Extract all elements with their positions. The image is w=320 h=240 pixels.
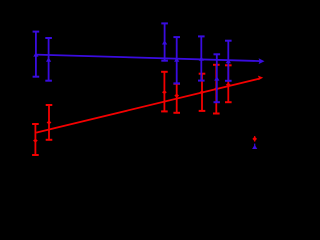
blue marker M7 [226, 59, 231, 64]
chart: scatter with error bars and trend arrows on black background [0, 0, 293, 184]
legend red stem [254, 136, 256, 142]
red error bar R7 [225, 65, 232, 102]
blue error bar B7 [225, 41, 232, 81]
legend red diamond [252, 137, 257, 142]
red error bar R2 [46, 105, 53, 140]
red error bar R3 [161, 72, 168, 112]
blue error bar B2 [45, 38, 52, 81]
red marker D6 [214, 87, 219, 91]
blue marker M5 [199, 56, 204, 61]
red trend line [36, 79, 259, 133]
red marker D4 [174, 94, 179, 98]
red error bar R6 [213, 65, 220, 114]
blue marker M6 [214, 76, 219, 81]
red error bar R1 [32, 124, 39, 155]
legend blue stem [254, 144, 256, 146]
blue error bar B1 [33, 32, 40, 77]
red arrowhead [258, 76, 263, 81]
blue marker M1 [33, 52, 38, 57]
blue error bar B5 [198, 36, 205, 80]
blue series group [33, 23, 261, 102]
red series group [32, 65, 259, 155]
blue error bar B4 [173, 37, 180, 83]
red marker D1 [33, 139, 38, 143]
legend blue triangle [252, 145, 257, 149]
blue error bar B6 [214, 54, 221, 102]
blue marker M3 [162, 40, 167, 45]
red marker D3 [162, 90, 167, 94]
red marker D5 [200, 90, 205, 94]
red marker D2 [47, 120, 52, 124]
blue error bar B3 [161, 23, 168, 60]
blue marker M4 [174, 57, 179, 62]
legend [252, 136, 257, 149]
red marker D7 [226, 83, 231, 87]
blue marker M2 [46, 57, 51, 62]
red error bar R4 [173, 84, 180, 113]
blue trend line [36, 55, 261, 62]
red error bar R5 [199, 74, 206, 111]
blue arrowhead [259, 58, 265, 64]
